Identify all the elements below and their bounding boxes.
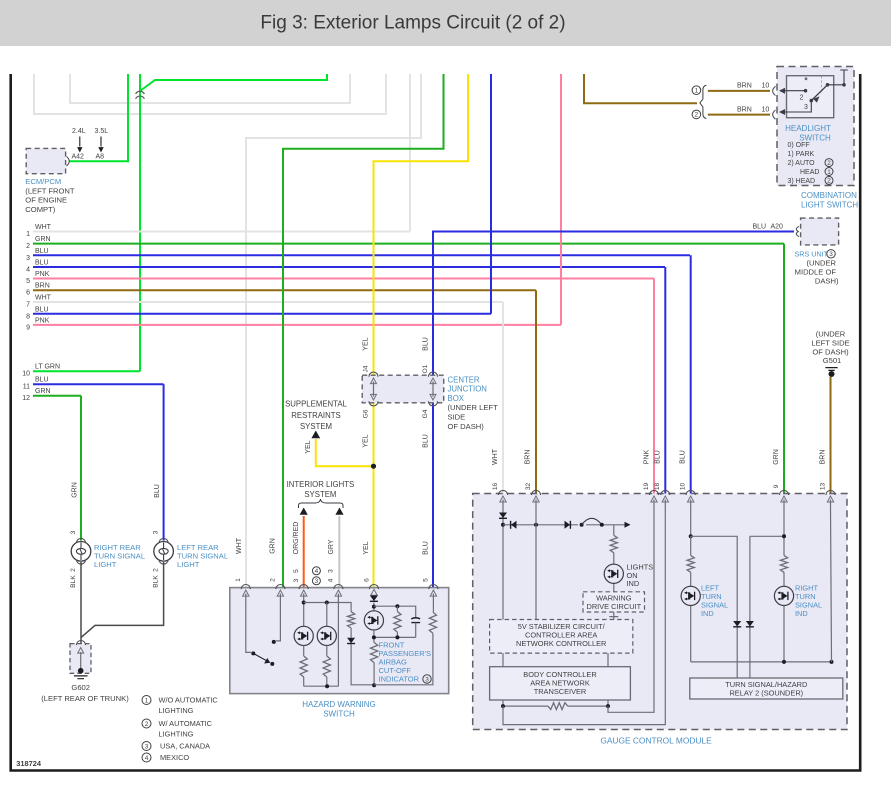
- svg-text:3: 3: [70, 530, 77, 534]
- svg-text:NETWORK CONTROLLER: NETWORK CONTROLLER: [516, 639, 606, 648]
- svg-text:G602: G602: [71, 683, 90, 692]
- left turn signal ind LED: [681, 586, 700, 605]
- svg-text:MEXICO: MEXICO: [160, 753, 189, 762]
- svg-text:18: 18: [654, 483, 661, 491]
- hazard pin5 resistor: [432, 601, 434, 612]
- wire BRN headlight 1: [708, 90, 770, 92]
- wire GRN row 2 to gauge pin 9: [783, 244, 785, 494]
- legend item 2: [142, 719, 151, 728]
- junction box internal arrow: [432, 382, 434, 397]
- circled 3 SRS: [827, 250, 835, 258]
- svg-text:MIDDLE OF: MIDDLE OF: [795, 268, 837, 277]
- gauge chain coil arc: [582, 518, 602, 525]
- svg-text:BLU: BLU: [154, 484, 161, 498]
- svg-text:6: 6: [26, 290, 30, 297]
- switch lever: [811, 85, 827, 101]
- left turn branch: [690, 536, 692, 662]
- hazard bus 1: [304, 601, 339, 686]
- wire BLU row 4 to gauge pin 18: [664, 267, 666, 494]
- wire BLU row 8 to top: [490, 74, 492, 314]
- gauge chain dot b: [600, 523, 604, 527]
- gauge wires to body box: [503, 653, 608, 667]
- SRS connector arcs: [796, 226, 799, 236]
- gauge relay feed right: [750, 536, 784, 678]
- svg-text:LEFT SIDE: LEFT SIDE: [811, 339, 849, 348]
- svg-text:YEL: YEL: [363, 434, 370, 447]
- right turn branch: [783, 572, 785, 662]
- wire BRN headlight 2: [708, 114, 770, 116]
- wire ORG/RED to hazard pin 3: [303, 516, 305, 588]
- left rear bulb connector top: [159, 538, 168, 543]
- right rear bulb connector top: [76, 538, 85, 543]
- brace headlight: [700, 85, 706, 119]
- wire BLK right bulb to G602: [80, 562, 82, 643]
- svg-text:G6: G6: [363, 409, 370, 418]
- svg-text:7: 7: [26, 302, 30, 309]
- svg-text:GRY: GRY: [328, 539, 335, 554]
- svg-text:3: 3: [315, 578, 319, 585]
- svg-text:HEAD: HEAD: [800, 169, 819, 176]
- lights on ind LED: [604, 564, 623, 583]
- hazard indicator bottom bus: [374, 636, 416, 638]
- svg-text:3: 3: [145, 743, 149, 750]
- svg-text:32: 32: [525, 483, 532, 491]
- wire PNK row 5 to gauge pin 19: [653, 279, 655, 495]
- svg-text:10: 10: [762, 83, 770, 90]
- wire LT GRN row 10 riser: [139, 360, 141, 371]
- svg-text:CENTER: CENTER: [448, 375, 480, 384]
- gauge junction dot 16: [501, 523, 505, 527]
- arrow interior lights 2: [335, 508, 343, 515]
- svg-text:G4: G4: [422, 409, 429, 418]
- ECM/PCM connector arc: [67, 157, 70, 167]
- circled 2 auto: [825, 159, 833, 167]
- svg-text:2: 2: [145, 721, 149, 728]
- svg-text:13: 13: [819, 483, 826, 491]
- hazard pin 2: [276, 585, 285, 590]
- svg-text:BOX: BOX: [448, 394, 465, 403]
- svg-text:IND: IND: [701, 609, 714, 618]
- svg-text:8: 8: [26, 313, 30, 320]
- ground G501: [825, 368, 837, 371]
- svg-text:LIGHT: LIGHT: [94, 560, 117, 569]
- svg-text:2: 2: [70, 568, 77, 572]
- ECM/PCM box: [26, 148, 65, 173]
- 5V stabilizer box: [490, 620, 633, 654]
- svg-text:LIGHTING: LIGHTING: [159, 730, 194, 739]
- junction dot yellow: [371, 464, 376, 469]
- wire PNK row 9: [33, 324, 561, 326]
- gauge pin 16: [498, 490, 507, 495]
- svg-text:(UNDER: (UNDER: [806, 259, 836, 268]
- hazard pin3 horizontal: [304, 603, 351, 612]
- svg-text:W/ AUTOMATIC: W/ AUTOMATIC: [159, 719, 213, 728]
- svg-text:J4: J4: [363, 365, 370, 372]
- svg-text:5: 5: [293, 569, 300, 573]
- svg-text:4: 4: [26, 267, 30, 274]
- gauge wire pin19 internal: [608, 507, 654, 712]
- hazard LED 1 resistor: [300, 656, 307, 677]
- svg-text:4: 4: [315, 568, 319, 575]
- switch output wire: [828, 70, 848, 85]
- svg-text:BRN: BRN: [35, 283, 50, 290]
- svg-text:IND: IND: [627, 579, 640, 588]
- svg-text:SYSTEM: SYSTEM: [300, 422, 332, 431]
- G602 connector arc: [76, 641, 85, 646]
- ground G602: [78, 668, 84, 674]
- svg-text:2) AUTO: 2) AUTO: [788, 160, 816, 167]
- svg-text:HAZARD WARNING: HAZARD WARNING: [302, 700, 375, 709]
- gauge lights branch: [613, 525, 615, 592]
- svg-text:(LEFT FRONT: (LEFT FRONT: [25, 186, 75, 195]
- svg-text:3: 3: [328, 569, 335, 573]
- svg-text:OF DASH): OF DASH): [448, 422, 485, 431]
- svg-text:BLU: BLU: [35, 260, 49, 267]
- wire YEL top to junction box J4: [374, 74, 469, 376]
- svg-text:LIGHTING: LIGHTING: [159, 706, 194, 715]
- wire BLU row 3 to gauge pin 10: [690, 255, 692, 494]
- hazard warning switch box: [230, 588, 449, 694]
- SRS unit box: [801, 218, 839, 245]
- svg-text:Fig 3: Exterior Lamps Circuit: Fig 3: Exterior Lamps Circuit (2 of 2): [260, 13, 565, 34]
- airbag indicator resistor: [373, 630, 375, 642]
- gauge wire pin13 internal: [831, 507, 832, 662]
- svg-text:10: 10: [680, 483, 687, 491]
- svg-text:INDICATOR: INDICATOR: [379, 675, 420, 684]
- gauge pin 32: [531, 490, 540, 495]
- svg-text:WHT: WHT: [35, 295, 52, 302]
- hazard pin 5: [429, 585, 438, 590]
- hazard pin 1: [241, 585, 250, 590]
- svg-text:SWITCH: SWITCH: [799, 133, 831, 142]
- junction box internal arrow: [373, 382, 375, 397]
- svg-text:10: 10: [762, 106, 770, 113]
- circled 2 head: [825, 176, 833, 184]
- hazard LED 2: [317, 626, 336, 645]
- arrow 3.5L to A8: [100, 137, 102, 147]
- warning drive circuit box: [583, 592, 645, 612]
- gauge chain dot a: [580, 523, 584, 527]
- svg-text:DRIVE CIRCUIT: DRIVE CIRCUIT: [586, 602, 641, 611]
- inline connector arcs on green wire: [136, 91, 145, 94]
- junction box bottom pin G6: [369, 401, 378, 406]
- svg-text:3: 3: [153, 530, 160, 534]
- circled 4 variant: [312, 567, 320, 575]
- svg-text:16: 16: [492, 483, 499, 491]
- gauge pin 10: [686, 490, 695, 495]
- gauge pin 19: [649, 490, 658, 495]
- svg-text:O1: O1: [422, 364, 429, 373]
- svg-text:0) OFF: 0) OFF: [788, 142, 810, 149]
- combination light switch outer box: [777, 67, 854, 186]
- svg-text:2.4L: 2.4L: [72, 128, 86, 135]
- hazard pin6 diode: [370, 596, 378, 602]
- svg-text:LIGHT: LIGHT: [177, 560, 200, 569]
- wire LT GRN row 10: [33, 370, 140, 372]
- gauge pin 18: [661, 490, 670, 495]
- svg-text:IND: IND: [795, 609, 808, 618]
- wire GRN top to hazard pin 2: [283, 74, 444, 588]
- svg-text:(UNDER LEFT: (UNDER LEFT: [448, 403, 499, 412]
- left turn resistor: [687, 555, 694, 572]
- front passenger airbag cutoff indicator LED: [364, 611, 383, 630]
- svg-text:2: 2: [26, 243, 30, 250]
- hazard LED 1: [294, 626, 313, 645]
- svg-text:318724: 318724: [16, 759, 42, 768]
- svg-text:RESTRAINTS: RESTRAINTS: [291, 411, 340, 420]
- svg-text:OF ENGINE: OF ENGINE: [25, 196, 67, 205]
- wire BRN top to headlight switch brace: [584, 74, 697, 103]
- svg-text:11: 11: [23, 384, 30, 391]
- wire PNK row 9 to top: [560, 74, 562, 325]
- svg-text:5: 5: [26, 278, 30, 285]
- svg-text:1: 1: [695, 88, 699, 95]
- gauge wire 16 internal: [502, 507, 504, 620]
- svg-text:YEL: YEL: [363, 337, 370, 350]
- svg-text:ORG/RED: ORG/RED: [293, 522, 300, 555]
- svg-text:TRANSCEIVER: TRANSCEIVER: [534, 687, 587, 696]
- circled 3 variant: [312, 577, 320, 585]
- wire PNK row 5: [33, 278, 654, 280]
- junction box top pin O1: [428, 372, 437, 377]
- svg-text:3: 3: [26, 255, 30, 262]
- switch position 2 contact: [781, 90, 806, 92]
- svg-text:2: 2: [153, 568, 160, 572]
- switch dashed divider: [821, 76, 823, 94]
- circled 3 airbag: [423, 675, 431, 683]
- gauge bottom resistor: [503, 705, 608, 707]
- wire GRN ECM/PCM to top: [69, 74, 128, 161]
- wire WHT row 1 riser: [409, 74, 411, 232]
- svg-text:LIGHT SWITCH: LIGHT SWITCH: [801, 201, 858, 210]
- svg-text:COMBINATION: COMBINATION: [801, 191, 857, 200]
- svg-text:LT GRN: LT GRN: [35, 364, 60, 371]
- legend item 4: [142, 753, 151, 762]
- center junction box: [362, 375, 444, 403]
- wire GRN vertical with branch: [139, 74, 141, 371]
- gauge control module box: [473, 494, 847, 730]
- gauge pin 9: [779, 490, 788, 495]
- svg-text:WHT: WHT: [35, 224, 52, 231]
- left rear bulb connector bottom: [159, 560, 168, 565]
- svg-text:BLU: BLU: [422, 337, 429, 351]
- hazard LED 2 resistor: [323, 656, 330, 677]
- svg-text:BLU: BLU: [422, 434, 429, 448]
- diode relay left: [733, 621, 741, 627]
- svg-text:9: 9: [26, 324, 30, 331]
- gauge relay feed left: [691, 536, 738, 678]
- gauge wire pin10 internal: [690, 507, 692, 536]
- svg-text:BRN: BRN: [737, 106, 752, 113]
- circled 1 headlight: [692, 86, 701, 95]
- turn signal hazard relay box: [690, 678, 843, 699]
- svg-text:DASH): DASH): [815, 276, 839, 285]
- arrow 2.4L to A42: [79, 137, 81, 147]
- gauge pin 13: [826, 490, 835, 495]
- gauge wire pin18 internal: [503, 507, 665, 725]
- hazard pin3 wire: [303, 601, 305, 626]
- wire GRN row 2: [33, 243, 784, 245]
- svg-text:G501: G501: [823, 356, 842, 365]
- svg-text:PNK: PNK: [35, 271, 50, 278]
- arrow to SRS system: [311, 431, 320, 439]
- svg-text:BLK: BLK: [153, 575, 160, 588]
- gauge wire pin9 internal: [783, 507, 785, 555]
- hazard pin 6: [369, 585, 378, 590]
- gauge chain arrow: [625, 522, 631, 528]
- svg-text:BLU: BLU: [680, 450, 687, 464]
- G602 internal arrow: [80, 652, 82, 669]
- svg-text:BRN: BRN: [525, 450, 532, 465]
- svg-text:2: 2: [270, 578, 277, 582]
- gauge wire 32 internal: [535, 507, 537, 620]
- svg-text:GRN: GRN: [71, 482, 78, 498]
- svg-text:WHT: WHT: [236, 537, 243, 554]
- svg-text:3.5L: 3.5L: [95, 128, 109, 135]
- svg-text:A8: A8: [96, 153, 105, 160]
- hazard resistor branch: [348, 612, 355, 628]
- svg-text:3) HEAD: 3) HEAD: [788, 178, 816, 185]
- wire GRN row 12 to right bulb: [80, 396, 82, 541]
- left rear turn signal bulb: [154, 542, 174, 562]
- G602 box: [70, 644, 91, 674]
- switch contact dot 0: [805, 77, 808, 80]
- svg-text:12: 12: [22, 395, 30, 402]
- svg-text:A20: A20: [771, 224, 784, 231]
- wire BLU row 11: [33, 383, 164, 385]
- wire BLU junction box G4 to hazard pin 5: [432, 402, 434, 588]
- right rear turn signal bulb: [71, 542, 91, 562]
- hazard airbag indicator top: [373, 603, 375, 611]
- svg-text:COMPT): COMPT): [25, 205, 55, 214]
- connector arc headlight 1: [773, 86, 776, 95]
- svg-text:2: 2: [695, 112, 699, 119]
- svg-text:2: 2: [827, 160, 831, 167]
- wire YEL SRS branch: [316, 439, 374, 466]
- svg-text:2: 2: [800, 95, 804, 102]
- hazard capacitor: [411, 618, 420, 623]
- brace interior lights: [299, 499, 344, 508]
- svg-text:BLU: BLU: [423, 541, 430, 555]
- svg-text:1: 1: [827, 169, 831, 176]
- svg-text:USA, CANADA: USA, CANADA: [160, 742, 210, 751]
- hazard pin 4: [334, 585, 343, 590]
- svg-text:BRN: BRN: [820, 450, 827, 465]
- svg-text:GRN: GRN: [35, 236, 51, 243]
- wire GRY to hazard pin 4: [338, 516, 340, 588]
- svg-text:YEL: YEL: [305, 440, 312, 453]
- right turn signal ind LED: [774, 586, 793, 605]
- junction box bottom pin G4: [428, 401, 437, 406]
- gauge bottom bus right: [691, 661, 832, 663]
- svg-text:BRN: BRN: [737, 83, 752, 90]
- svg-text:1: 1: [145, 697, 149, 704]
- svg-text:4: 4: [145, 755, 149, 762]
- wire BLU row 4: [33, 266, 665, 268]
- hazard pin 3: [299, 585, 308, 590]
- connector arc headlight 2: [773, 110, 776, 119]
- svg-text:5: 5: [423, 578, 430, 582]
- svg-text:YEL: YEL: [363, 541, 370, 554]
- svg-text:SWITCH: SWITCH: [323, 710, 355, 719]
- body controller box: [490, 667, 631, 700]
- svg-text:1) PARK: 1) PARK: [788, 151, 815, 158]
- svg-text:W/O AUTOMATIC: W/O AUTOMATIC: [159, 696, 219, 705]
- junction box top pin J4: [369, 372, 378, 377]
- circled 2 headlight: [692, 110, 701, 119]
- svg-text:SRS UNIT: SRS UNIT: [795, 250, 829, 259]
- arrow interior lights 1: [300, 508, 308, 515]
- hazard LED 2 wire: [326, 603, 328, 627]
- gauge horizontal chain: [503, 524, 578, 526]
- wire WHT row 7 to gauge pin 16: [502, 302, 504, 494]
- wire WHT top bridge inner: [70, 74, 350, 103]
- hazard switch lever: [251, 651, 255, 655]
- wire BRN row 6: [33, 289, 536, 291]
- right rear bulb connector bottom: [76, 560, 85, 565]
- svg-text:GRN: GRN: [773, 449, 780, 465]
- wire YEL junction box G6 to hazard pin 6: [373, 402, 375, 588]
- legend item 3: [142, 742, 151, 751]
- wire BRN G501 to gauge pin 13: [830, 377, 832, 494]
- svg-text:GRN: GRN: [270, 538, 277, 554]
- svg-text:BLU: BLU: [655, 450, 662, 464]
- svg-text:4: 4: [328, 578, 335, 582]
- svg-text:BLU: BLU: [35, 377, 49, 384]
- gauge chain diode right: [565, 521, 571, 529]
- wire GRN row 12: [33, 395, 81, 397]
- wire BLU row 8: [33, 313, 491, 315]
- gauge lights resistor: [610, 535, 617, 553]
- headlight switch inner box: [787, 76, 834, 118]
- svg-text:(LEFT REAR OF TRUNK): (LEFT REAR OF TRUNK): [41, 694, 129, 703]
- diode relay right: [746, 621, 754, 627]
- wire WHT row 1: [33, 231, 410, 233]
- wire BLU row 11 to left bulb: [163, 384, 165, 540]
- hazard parallel resistor: [396, 606, 398, 611]
- wire BLU row 3: [33, 254, 690, 256]
- svg-text:JUNCTION: JUNCTION: [448, 385, 487, 394]
- svg-text:WHT: WHT: [492, 448, 499, 465]
- svg-text:3: 3: [829, 251, 833, 258]
- wire WHT top bridge outer: [34, 74, 386, 114]
- svg-text:3: 3: [425, 676, 429, 683]
- wire BLK left bulb join: [81, 562, 164, 638]
- gauge junction dot 32: [534, 523, 538, 527]
- svg-text:BLU: BLU: [753, 224, 767, 231]
- svg-text:BLU: BLU: [35, 248, 49, 255]
- svg-text:RELAY 2 (SOUNDER): RELAY 2 (SOUNDER): [729, 689, 803, 698]
- svg-text:PNK: PNK: [35, 317, 50, 324]
- svg-text:1: 1: [26, 231, 30, 238]
- gauge chain diode left: [511, 521, 517, 529]
- svg-text:PNK: PNK: [644, 449, 651, 464]
- svg-text:SYSTEM: SYSTEM: [304, 490, 336, 499]
- svg-text:HEADLIGHT: HEADLIGHT: [785, 124, 831, 133]
- wire BRN row 6 to gauge pin 32: [535, 290, 537, 494]
- svg-text:GAUGE CONTROL MODULE: GAUGE CONTROL MODULE: [600, 736, 712, 746]
- title bar: [0, 0, 891, 46]
- legend item 1: [142, 696, 151, 705]
- wire WHT from top to hazard pin 1: [246, 74, 421, 588]
- svg-text:3: 3: [293, 578, 300, 582]
- circled 1 head: [825, 168, 833, 176]
- hazard diode branch: [347, 638, 355, 644]
- svg-text:(UNDER: (UNDER: [816, 330, 846, 339]
- wire BLU SRS A20: [433, 232, 794, 376]
- right turn resistor: [780, 555, 787, 572]
- svg-text:1: 1: [235, 578, 242, 582]
